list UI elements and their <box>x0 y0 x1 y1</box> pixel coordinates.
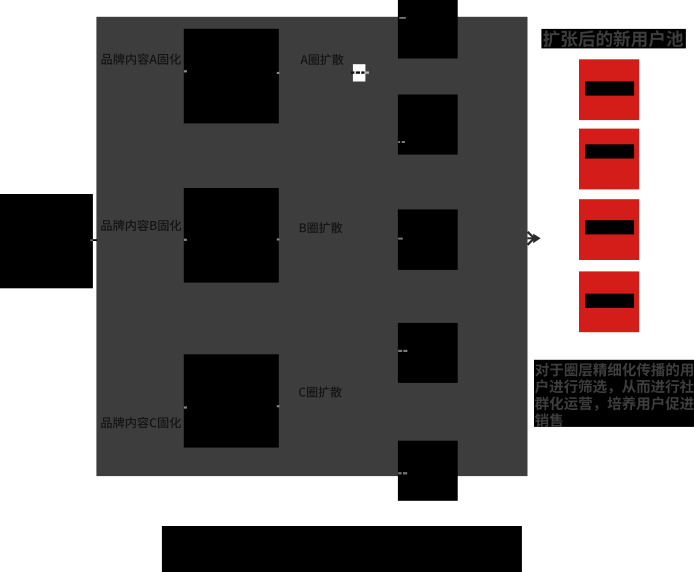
wire tick left of box B <box>184 239 187 241</box>
gray background panel <box>96 17 527 476</box>
paragraph line 4 <box>535 413 563 427</box>
label B circle diffusion <box>300 222 343 233</box>
white placeholder icon <box>353 64 366 81</box>
tiny caption on box 2 <box>398 141 400 143</box>
wire from left box to panel <box>93 239 97 241</box>
arrow chevron outline <box>528 232 535 245</box>
black label bar in red box 3 <box>585 220 634 234</box>
diffusion image box 3 <box>398 209 458 270</box>
tiny caption on box 3 <box>398 238 403 240</box>
title: expanded new user pool <box>543 30 683 47</box>
diffusion image box 2 <box>398 95 458 155</box>
paragraph line 2 <box>535 379 694 393</box>
wire tick on left box right edge <box>90 239 93 241</box>
label C circle diffusion <box>299 386 342 397</box>
wire tick right of box A <box>277 72 280 74</box>
paragraph line 3 <box>535 396 694 410</box>
arrow head filled <box>533 234 540 244</box>
bottom black banner <box>162 526 522 572</box>
title background strip <box>541 29 686 49</box>
diffusion image box 4 <box>398 323 458 383</box>
paragraph line 1 <box>535 363 693 377</box>
red user pool box 4 <box>579 271 639 332</box>
label brand content A <box>102 53 181 65</box>
diffusion image box 5 <box>398 441 458 501</box>
black label bar in red box 2 <box>585 144 634 158</box>
black label bar in red box 1 <box>585 81 634 95</box>
image box A (brand content A) <box>184 29 279 124</box>
label A circle diffusion <box>300 54 343 65</box>
wire tick left of box A <box>184 70 187 72</box>
tiny caption on box 1 <box>399 17 406 19</box>
left source image box <box>0 194 93 288</box>
image box B (brand content B) <box>184 188 279 283</box>
tiny caption on box 4 <box>398 350 402 352</box>
black label bar in red box 4 <box>585 294 634 308</box>
tiny caption on box 5 <box>398 472 401 474</box>
label brand content C <box>101 417 181 429</box>
diffusion image box 1 <box>398 0 458 59</box>
wire tick left of box C <box>184 406 187 408</box>
paragraph background <box>534 360 694 427</box>
image box C (brand content C) <box>184 354 279 447</box>
red user pool box 2 <box>579 129 639 190</box>
red user pool box 3 <box>579 199 639 260</box>
red user pool box 1 <box>579 59 639 120</box>
wire tick right of box B <box>277 238 280 240</box>
dashed wire through icon <box>351 71 354 73</box>
wire tick right of box C <box>277 405 280 407</box>
label brand content B <box>101 220 181 232</box>
